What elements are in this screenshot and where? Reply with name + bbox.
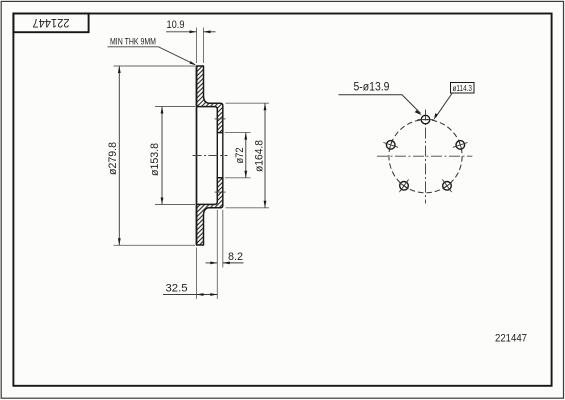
svg-text:MIN THK 9MM: MIN THK 9MM: [110, 37, 156, 47]
label 114.3 leader: [436, 93, 453, 117]
slash upper right hole: [453, 143, 468, 148]
dim 8.2 line: [206, 262, 218, 264]
vertical centerline: [425, 110, 427, 204]
dim 153.8 ext lines: [155, 106, 195, 108]
svg-text:221447: 221447: [495, 333, 527, 345]
horizontal centerline: [377, 155, 472, 157]
bolt circle dia 114.3 dashed: [389, 120, 462, 193]
label 114.3 box: [451, 83, 475, 94]
slash upper left hole: [383, 143, 398, 148]
bolt hole upper left: [386, 141, 395, 150]
bolt hole lower right: [443, 182, 452, 191]
bolt hole top: [421, 115, 430, 124]
section centerline: [193, 155, 228, 157]
dim 32.5 ext line: [196, 248, 198, 300]
svg-text:5-ø13.9: 5-ø13.9: [354, 82, 390, 94]
dim 72 line: [245, 133, 247, 178]
dim 72 ext lines: [225, 132, 251, 134]
title box top-left: [13, 14, 88, 33]
top hole arc tick: [418, 119, 434, 121]
dim 10.9 line: [166, 31, 197, 33]
dim 279.8 line: [118, 66, 120, 245]
bolt hole lower left: [400, 182, 409, 191]
dim 279.8 ext lines: [114, 65, 196, 67]
svg-text:ø72: ø72: [234, 148, 246, 164]
bolt hole centermark upper: [215, 118, 226, 120]
bolt hole centermark lower: [215, 191, 226, 193]
dim 32.5 line: [163, 294, 217, 296]
svg-text:8.2: 8.2: [228, 251, 243, 263]
bore edge lines through hub wall: [216, 133, 218, 178]
note leader: [108, 47, 195, 65]
dim 10.9 ext lines: [196, 28, 198, 64]
svg-text:ø164.8: ø164.8: [253, 140, 265, 172]
dim 164.8 ext lines: [226, 102, 270, 104]
section metal lower half: [197, 178, 223, 245]
svg-text:221447: 221447: [33, 16, 70, 30]
arc tick upper left hole: [389, 140, 392, 150]
svg-text:ø279.8: ø279.8: [107, 142, 119, 175]
dim 8.2 ext lines: [216, 210, 218, 299]
svg-text:32.5: 32.5: [166, 282, 188, 294]
svg-text:ø114.3: ø114.3: [453, 84, 473, 93]
arc tick upper right hole: [459, 140, 462, 150]
svg-text:ø153.8: ø153.8: [149, 143, 161, 176]
bolt hole upper right: [456, 141, 465, 150]
outboard face line: [196, 66, 198, 245]
section metal upper half: [197, 66, 223, 133]
svg-text:10.9: 10.9: [167, 19, 185, 31]
dim 164.8 line: [264, 103, 266, 208]
arc tick lower right hole: [443, 183, 452, 189]
label 5-13.9 leader: [339, 95, 421, 114]
dim 153.8 line: [161, 107, 163, 205]
slash lower right hole: [442, 180, 451, 193]
slash lower left hole: [399, 180, 408, 193]
arc tick lower left hole: [400, 183, 409, 189]
